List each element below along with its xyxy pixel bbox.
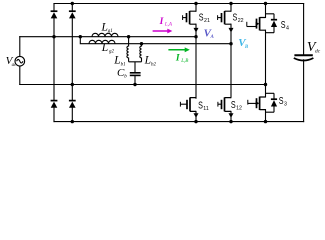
arrow S12 source [229, 113, 234, 118]
diode D3 bottom (leg1) [51, 101, 58, 108]
inductor Lg2 [89, 40, 115, 43]
svg-text:21: 21 [204, 18, 210, 24]
node bot S3 [264, 120, 267, 123]
svg-text:L: L [144, 55, 151, 67]
label S3 [279, 95, 287, 108]
arrow S3 channel [256, 101, 260, 105]
svg-text:3: 3 [284, 102, 287, 108]
node mid leg2 [71, 83, 74, 86]
svg-text:L: L [101, 21, 108, 33]
label S11 [198, 100, 209, 113]
svg-text:12: 12 [236, 106, 242, 112]
node bot leg2 [71, 120, 74, 123]
svg-text:22: 22 [238, 18, 244, 24]
node bot S12 [229, 120, 232, 123]
wire S4-S3 leg [265, 4, 267, 122]
svg-text:S: S [199, 12, 204, 24]
capacitor Cb [130, 73, 141, 85]
svg-text:b: b [124, 75, 127, 80]
inductor Lb2 (vertical) [140, 44, 142, 62]
mosfet S3 [248, 97, 266, 110]
node railA leg1 [52, 35, 55, 38]
node railA Lb1 [127, 35, 130, 38]
svg-text:g2: g2 [109, 49, 115, 54]
svg-text:4: 4 [286, 26, 289, 32]
wire Vac left branch [19, 37, 21, 85]
label Lg2 [101, 42, 115, 55]
svg-text:S: S [281, 19, 286, 31]
ac source V_ac [15, 56, 25, 66]
svg-text:dc: dc [315, 49, 321, 55]
svg-text:B: B [244, 45, 249, 50]
node railB Lb2 [140, 42, 143, 45]
current arrow I_L,A (magenta) [153, 29, 173, 34]
svg-text:A: A [210, 35, 215, 40]
label I_L,A [159, 17, 173, 28]
label VB (node B) [238, 37, 249, 50]
label Lb1 [113, 55, 125, 68]
mosfet S4 [247, 17, 266, 30]
node top rail leg2 [71, 2, 74, 5]
svg-text:L,A: L,A [164, 23, 173, 28]
node railA branch [79, 35, 82, 38]
svg-text:L,B: L,B [180, 59, 188, 64]
arrow S22 source [229, 28, 234, 33]
svg-text:S: S [233, 12, 238, 24]
diode D4 bottom (leg2) [69, 101, 76, 108]
mosfet S11 [180, 97, 196, 111]
node VB [229, 42, 232, 45]
label I_L,B [175, 54, 188, 65]
body diode S4 [266, 14, 278, 33]
label Vac [6, 55, 18, 68]
node mid S4S3 [264, 83, 267, 86]
wire top rail [54, 3, 304, 5]
wire phase A leg [195, 4, 197, 122]
capacitor Vdc (electrolytic) [294, 55, 314, 60]
mosfet S22 [218, 11, 231, 24]
arrow S11 source [194, 113, 199, 118]
label Lb2 [144, 55, 157, 68]
svg-text:11: 11 [203, 106, 209, 112]
svg-text:S: S [231, 99, 236, 111]
node VA [194, 35, 197, 38]
wire mid rail (AC return) [20, 84, 266, 86]
arrow S21 source [194, 28, 199, 33]
inductor Lg1 [92, 33, 118, 36]
node top rail S21 [194, 2, 197, 5]
label VA (node A) [204, 28, 215, 41]
wire Vdc right branch [303, 4, 305, 122]
svg-text:g1: g1 [108, 29, 113, 34]
label S21 [199, 12, 210, 25]
inductor Lb1 (vertical) [127, 37, 129, 62]
label S4 [281, 19, 289, 32]
arrow S4 channel [256, 22, 260, 26]
svg-text:I: I [159, 17, 164, 27]
label Cb [117, 67, 127, 80]
svg-text:L: L [113, 55, 120, 67]
diode D2 top (leg2) [69, 11, 76, 18]
svg-text:L: L [101, 42, 108, 54]
label S12 [231, 99, 242, 112]
diode D1 top (leg1) [51, 11, 58, 18]
current arrow I_L,B (green) [168, 47, 189, 52]
node mid Cb [133, 83, 136, 86]
node bot S11 [194, 120, 197, 123]
svg-text:S: S [198, 100, 203, 112]
wire diode leg 2 [71, 4, 73, 122]
body diode S3 [266, 93, 278, 112]
svg-text:S: S [279, 95, 284, 107]
label Lg1 [101, 21, 113, 34]
mosfet S21 [183, 11, 196, 24]
label Vdc [307, 40, 321, 55]
wire Lb join + center tap [129, 62, 142, 72]
node top rail S22 [229, 2, 232, 5]
wire phase B leg [230, 4, 232, 122]
node top rail S4 [264, 2, 267, 5]
svg-text:ac: ac [12, 63, 18, 68]
wire rail A (phase A) [20, 36, 196, 38]
svg-text:I: I [175, 54, 180, 64]
mosfet S12 [218, 97, 231, 111]
svg-text:b2: b2 [151, 62, 157, 67]
wire rail B (phase B) [80, 37, 231, 44]
label S22 [233, 12, 244, 25]
wire diode leg 1 [53, 4, 55, 122]
wire bottom rail [54, 121, 304, 123]
